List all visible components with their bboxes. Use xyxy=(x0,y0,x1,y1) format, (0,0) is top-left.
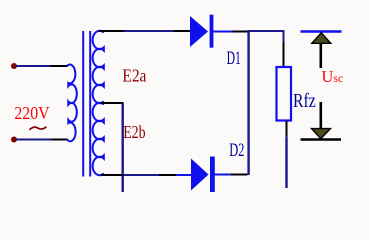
wire after D1 blue xyxy=(213,31,232,33)
wire after D1 black xyxy=(232,31,247,33)
diode D1 cathode bar xyxy=(210,15,214,48)
wire primary top blue xyxy=(17,65,52,67)
diode D1 triangle xyxy=(190,16,208,47)
svg-text:E2a: E2a xyxy=(122,65,146,85)
diode D2 cathode bar xyxy=(210,157,215,193)
wire center tap black xyxy=(101,102,124,104)
terminal dot bottom-left xyxy=(11,137,17,143)
wire load bottom lead black xyxy=(286,121,288,136)
wire bottom black from secondary xyxy=(101,174,124,176)
wire top black to D1 xyxy=(173,30,190,32)
terminal dot top-left xyxy=(11,63,17,69)
Usc up arrowhead xyxy=(312,33,331,44)
transformer core line left xyxy=(82,31,84,177)
wire primary bottom black xyxy=(52,139,68,141)
Usc lower stem xyxy=(319,102,322,130)
svg-text:Rfz: Rfz xyxy=(293,91,316,112)
transformer primary winding P1 xyxy=(67,65,77,142)
wire bottom blue to D2 xyxy=(176,174,191,176)
transformer core line right xyxy=(89,31,91,177)
svg-text:E2b: E2b xyxy=(123,122,145,142)
wire after D2 blue xyxy=(214,174,231,176)
svg-text:Usc: Usc xyxy=(322,67,344,86)
wire top black from secondary xyxy=(99,30,124,32)
Usc bottom bar black xyxy=(301,138,342,140)
Usc top bar blue xyxy=(301,30,342,33)
wire load top lead blue xyxy=(283,31,285,42)
wire top right blue to load xyxy=(247,30,284,32)
wire bottom black to D2 xyxy=(159,174,176,176)
diode D2 triangle xyxy=(191,159,209,191)
wire load top lead black xyxy=(283,42,285,67)
wire primary top black xyxy=(51,65,68,67)
node vertical common cathode line xyxy=(247,31,249,175)
wire primary bottom blue xyxy=(17,139,52,141)
transformer secondary winding upper E2a coil xyxy=(93,31,104,103)
resistor Rfz xyxy=(277,67,292,121)
svg-text:220V: 220V xyxy=(14,103,49,123)
transformer secondary winding lower E2b coil xyxy=(93,103,104,175)
AC tilde symbol xyxy=(30,127,47,130)
Usc upper stem xyxy=(319,43,322,68)
wire bottom blue xyxy=(124,174,160,176)
wire top blue xyxy=(124,30,174,32)
svg-text:D2: D2 xyxy=(229,140,244,161)
wire load bottom lead navy stub xyxy=(285,136,287,188)
Usc down arrowhead xyxy=(312,129,331,139)
wire after D2 black xyxy=(231,174,247,176)
wire center tap navy vertical stub xyxy=(121,103,123,192)
svg-text:D1: D1 xyxy=(227,48,241,69)
